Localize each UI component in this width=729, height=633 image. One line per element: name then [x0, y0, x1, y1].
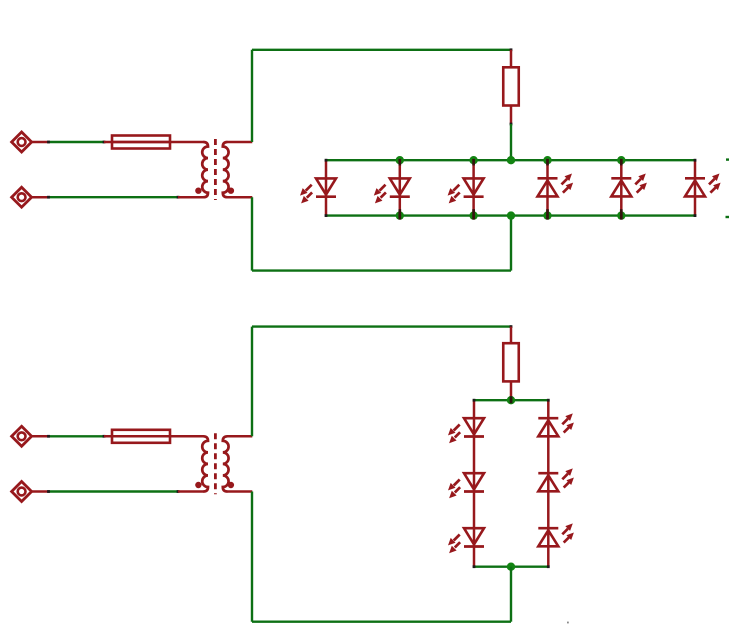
- pin end over junction: [472, 209, 475, 219]
- LED D3: [448, 160, 484, 215]
- pin end over junction: [398, 159, 401, 166]
- LED D11: [538, 456, 574, 512]
- wire center drop: [510, 567, 512, 622]
- wire secondary top: left vertical: [251, 50, 253, 142]
- wire secondary bottom: left vertical: [251, 197, 253, 270]
- transformer TR1: [195, 139, 234, 200]
- junction bottom rail at D4: [543, 211, 551, 219]
- fuse F1 pin wires: [104, 141, 204, 144]
- LED D12: [538, 512, 574, 569]
- junction bottom node: [507, 563, 515, 571]
- LED D9: [448, 512, 484, 569]
- wire secondary bottom: left vertical: [251, 492, 253, 622]
- junction bottom rail at D5: [617, 211, 625, 219]
- resistor R1: [503, 67, 519, 105]
- LED D6: [685, 159, 721, 217]
- net stub right edge top: [726, 158, 729, 160]
- fuse F2 pin wires: [104, 435, 204, 438]
- pin dot: [103, 435, 106, 438]
- transformer TR2 bottom-left pin: [178, 490, 204, 493]
- LED D2: [374, 160, 410, 215]
- pin dot: [47, 141, 50, 144]
- pin end over junction: [546, 209, 549, 219]
- transformer TR1 bottom-left pin: [178, 196, 204, 199]
- junction top rail at D4: [543, 156, 551, 164]
- stray speck: [567, 622, 569, 624]
- wire net N3 connector to fuse: [49, 435, 105, 437]
- wire net N1 connector to fuse: [49, 141, 105, 143]
- LED D1: [300, 159, 336, 217]
- pin dot: [510, 123, 513, 126]
- connector X2-2: [12, 482, 49, 502]
- pin dot: [177, 196, 180, 199]
- junction bottom rail at D2: [396, 211, 404, 219]
- fuse F1: [112, 136, 170, 149]
- junction bottom rail center: [507, 211, 515, 219]
- wire center drop: [510, 216, 512, 271]
- junction bottom rail at D3: [469, 211, 477, 219]
- fuse F2: [112, 430, 170, 443]
- connector X1-2: [12, 187, 49, 207]
- pin dot: [103, 141, 106, 144]
- pin end over junction: [510, 396, 513, 403]
- wire bottom horizontal: [252, 621, 511, 623]
- transformer TR1 top-right pin: [227, 141, 252, 144]
- pin end over junction: [398, 209, 401, 219]
- LED D4: [538, 160, 574, 215]
- LED D8: [448, 456, 484, 512]
- resistor R1 bottom pin: [510, 106, 513, 125]
- wire bottom horizontal: [252, 269, 511, 271]
- pin dot: [47, 196, 50, 199]
- pin end over junction: [546, 159, 549, 166]
- wire bottom node horizontal: [474, 566, 548, 568]
- wire resistor to top rail: [510, 124, 512, 160]
- junction top rail center: [507, 156, 515, 164]
- transformer TR2 top-right pin: [227, 435, 252, 438]
- junction top node: [507, 396, 515, 404]
- wire net N2 connector to transformer: [49, 196, 179, 198]
- resistor R2 top pin: [510, 327, 513, 344]
- wire bottom rail: [326, 214, 695, 216]
- connector X2-1: [12, 426, 49, 446]
- pin dot: [47, 490, 50, 493]
- wire secondary top: left vertical: [251, 327, 253, 437]
- LED D5: [611, 160, 647, 215]
- wire top horizontal: [252, 325, 511, 327]
- pin end over junction: [620, 159, 623, 166]
- LED D7: [448, 399, 484, 456]
- junction top rail at D2: [396, 156, 404, 164]
- wire top node horizontal: [474, 399, 548, 401]
- pin dot: [510, 48, 513, 51]
- resistor R2: [503, 343, 519, 381]
- pin dot: [510, 325, 513, 328]
- pin end over junction: [472, 159, 475, 166]
- pin end over junction: [620, 209, 623, 219]
- net stub right edge bottom: [726, 216, 729, 218]
- resistor R2 bottom pin: [510, 381, 513, 397]
- transformer TR2 bottom-right pin: [227, 490, 252, 493]
- wire net N4 connector to transformer: [49, 490, 179, 492]
- connector X1-1: [12, 132, 49, 152]
- wire top horizontal: [252, 49, 511, 51]
- pin dot: [177, 490, 180, 493]
- LED D10: [538, 399, 574, 456]
- junction top rail at D5: [617, 156, 625, 164]
- resistor R1 top pin: [510, 50, 513, 68]
- wire top rail: [326, 159, 695, 161]
- junction top rail at D3: [469, 156, 477, 164]
- pin dot: [47, 435, 50, 438]
- transformer TR2: [195, 433, 234, 494]
- transformer TR1 bottom-right pin: [227, 196, 252, 199]
